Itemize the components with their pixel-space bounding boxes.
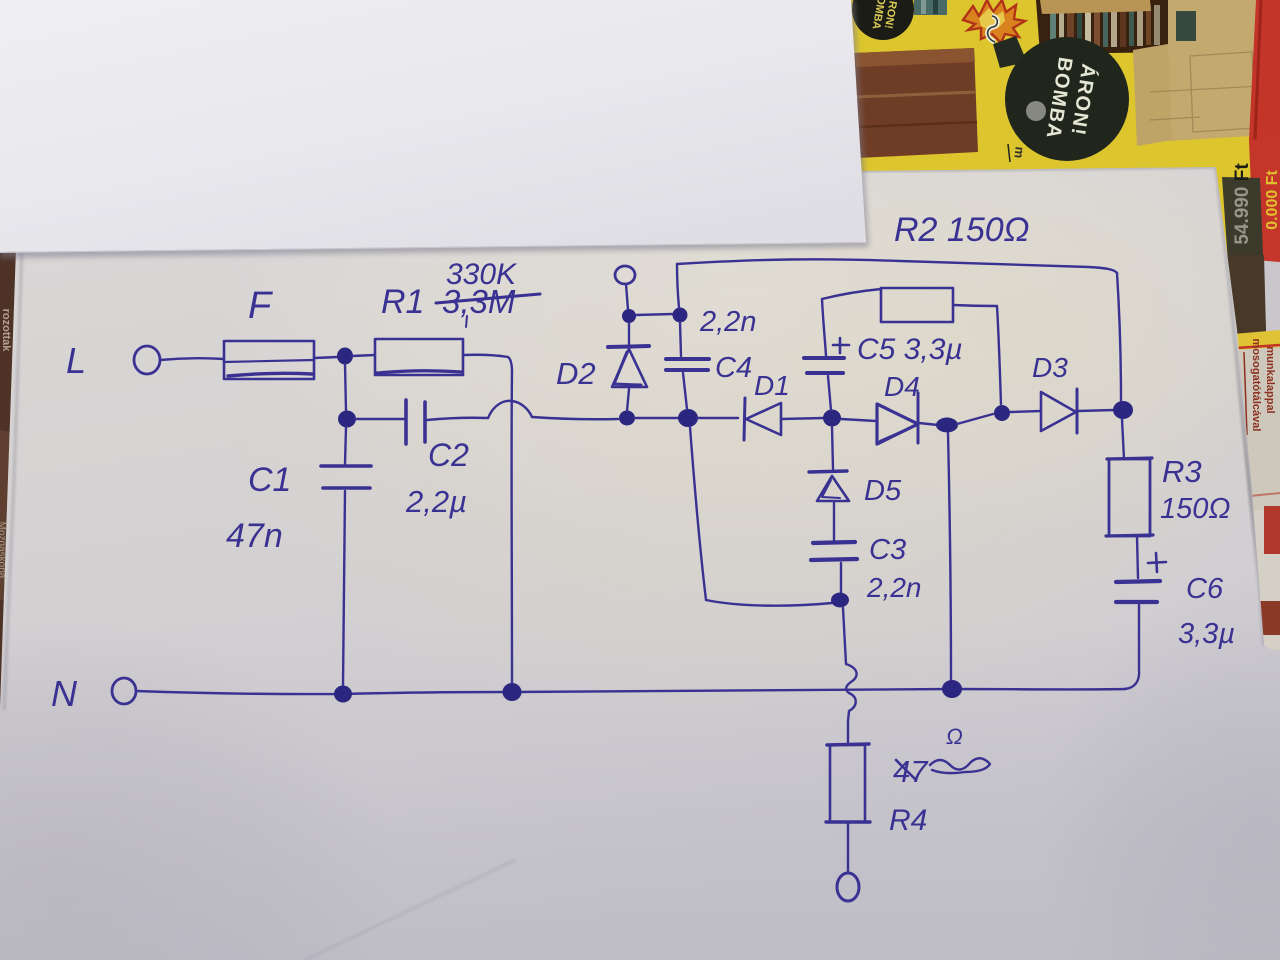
wire C6 down to N	[1125, 605, 1139, 689]
starburst explosion	[963, 0, 1025, 43]
svg-text:Ω: Ω	[946, 724, 963, 749]
diode D3 (points right)	[1041, 389, 1077, 433]
svg-text:rozottak: rozottak	[0, 309, 12, 353]
wire D2node to C4node	[635, 417, 679, 419]
svg-text:mosogatótálcával: mosogatótálcával	[1250, 339, 1262, 432]
bomb fuse curl	[988, 16, 998, 42]
svg-text:D3: D3	[1032, 352, 1068, 383]
wire vertical R1-output down to N	[510, 372, 513, 686]
svg-text:N: N	[51, 673, 78, 714]
wire fuse to node1	[314, 357, 338, 358]
node junction 1	[337, 348, 353, 365]
wire R4 down to terminal	[847, 822, 849, 873]
capacitor C6	[1116, 581, 1160, 602]
capacitor C2	[406, 400, 425, 444]
wire node2 down to C1	[345, 427, 346, 464]
wire C5 down to node3	[828, 376, 831, 410]
wire oval node down to N	[948, 433, 951, 680]
wire D2top node to C4 node	[636, 314, 673, 315]
fuse F1	[224, 341, 314, 379]
svg-text:3,3µ: 3,3µ	[1178, 618, 1235, 650]
svg-text:150Ω: 150Ω	[1160, 493, 1230, 525]
svg-text:R1: R1	[381, 283, 424, 321]
terminal L	[134, 346, 160, 374]
node N-C2branch	[503, 683, 522, 701]
svg-text:D4: D4	[884, 371, 920, 402]
capacitor C5 plus sign	[833, 338, 849, 353]
wire node1 to R1	[352, 355, 375, 356]
wire C4 down to main node	[683, 373, 687, 409]
svg-text:F: F	[248, 285, 273, 327]
node rail/R3 junction	[1113, 401, 1133, 419]
wire C4 main node down to loop corner	[690, 427, 706, 600]
capacitor C4	[666, 359, 709, 370]
wire D5 to C3	[833, 503, 835, 540]
diode D4 (points right)	[877, 393, 918, 444]
svg-text:R3: R3	[1162, 454, 1202, 489]
wire D1 to node3	[781, 418, 824, 419]
small badge top-left (partial)	[852, 0, 914, 40]
capacitor C5	[804, 358, 844, 373]
svg-text:47n: 47n	[226, 517, 283, 555]
wire node5 down to R3	[1122, 419, 1124, 459]
svg-text:L: L	[66, 340, 86, 381]
capacitor C6 plus sign	[1148, 553, 1166, 572]
wire D2 to main	[627, 389, 629, 411]
wire R2 right	[953, 305, 996, 306]
svg-text:D5: D5	[864, 475, 902, 507]
wire node2 to C2	[355, 418, 404, 420]
tan furniture sketch top-right	[1146, 0, 1280, 142]
svg-text:C3: C3	[869, 534, 906, 566]
diode D1 (points left)	[744, 398, 781, 440]
wire top rail R2	[677, 259, 1117, 273]
node D2 bottom	[619, 411, 635, 426]
wire D3 to node5	[1078, 410, 1114, 411]
resistor R4	[826, 744, 870, 822]
label 3,3M crossed out	[436, 283, 540, 327]
node D2 top	[622, 309, 636, 323]
node C4 bottom	[678, 409, 698, 427]
svg-text:47: 47	[893, 754, 929, 789]
terminal N	[112, 678, 136, 704]
wire loop corner to C3 node	[706, 600, 832, 606]
wire R1 right then down	[463, 355, 512, 372]
capacitor C1	[321, 466, 371, 488]
terminal bottom output	[837, 873, 859, 901]
wire node3 down to D5	[832, 427, 833, 469]
svg-text:R4: R4	[889, 804, 927, 837]
svg-text:2,2n: 2,2n	[699, 306, 756, 338]
teal books small	[914, 0, 947, 15]
wire D4 to oval node	[919, 423, 938, 425]
svg-text:R2 150Ω: R2 150Ω	[894, 211, 1030, 249]
red band with yellow price	[1249, 136, 1280, 262]
diode D5 (points up, bar on top)	[809, 471, 849, 501]
svg-text:C2: C2	[428, 437, 469, 473]
svg-text:54.990 Ft: 54.990 Ft	[1232, 163, 1253, 245]
diode D2 (points up, bar on top)	[608, 346, 649, 387]
node N-D4branch	[942, 680, 962, 698]
svg-text:C5 3,3µ: C5 3,3µ	[857, 333, 963, 366]
node D4 out (oval)	[936, 418, 958, 433]
resistor R2	[881, 288, 953, 322]
svg-text:D2: D2	[556, 356, 596, 391]
bookshelf photo top	[1036, 0, 1174, 54]
wire R2 left wire	[822, 289, 881, 299]
wire hop to D2 node	[532, 417, 618, 419]
wire node1 down to node2	[345, 364, 346, 411]
bomb circle	[1005, 37, 1129, 161]
svg-text:0.000 Ft: 0.000 Ft	[1264, 170, 1280, 230]
newsprint with red vertical text	[1236, 347, 1280, 510]
wire R2 right down	[997, 306, 1001, 404]
wire terminal down	[626, 284, 628, 310]
wire C3 down to node6	[840, 563, 842, 593]
wire node3 to D4	[841, 419, 876, 421]
wire node4 to D3	[1010, 411, 1041, 412]
wire R3 to C6	[1137, 536, 1138, 578]
svg-text:C1: C1	[248, 461, 291, 499]
svg-text:2,2µ: 2,2µ	[405, 484, 467, 519]
resistor R1	[375, 339, 463, 375]
brown box	[854, 48, 978, 158]
yellow strip under olive	[1233, 330, 1280, 350]
wire C1 down to N	[343, 491, 345, 685]
wire C4node to D1	[697, 417, 738, 419]
capacitor C3	[811, 542, 857, 560]
svg-text:C4: C4	[715, 352, 752, 384]
wire node6 down with hop over N	[843, 608, 857, 721]
wire C4top node down to C4	[680, 322, 681, 356]
dark olive band	[1222, 177, 1266, 334]
wire rail down right side	[1117, 273, 1121, 401]
terminal top output	[615, 266, 635, 284]
node R2 right junction	[994, 405, 1010, 421]
svg-text:2,2n: 2,2n	[866, 572, 922, 603]
label 47 ohm scribble	[893, 754, 990, 789]
wire N line	[136, 689, 1125, 694]
svg-text:D1: D1	[754, 370, 790, 401]
wire C4node up to rail	[677, 264, 679, 308]
wire hop over vertical	[488, 401, 532, 418]
svg-text:m: m	[1011, 146, 1027, 159]
svg-text:munkalappal: munkalappal	[1264, 346, 1276, 413]
bomb cap	[993, 36, 1027, 68]
wire C5 top: R2 left corner down	[822, 299, 826, 356]
wire L to fuse	[160, 358, 224, 360]
lighter newsprint	[1247, 510, 1280, 650]
wire C2 to hop	[427, 418, 488, 420]
svg-text:C6: C6	[1186, 573, 1224, 605]
resistor R3	[1106, 458, 1153, 536]
node C3 bottom	[831, 593, 849, 608]
wire hop to R4	[847, 721, 849, 745]
node C4 top	[673, 308, 688, 323]
node junction 2	[338, 411, 356, 428]
node N-C1	[334, 686, 352, 703]
left sliver	[0, 238, 18, 712]
node C5/D5 junction	[823, 410, 841, 427]
right red ribbon top	[1249, 0, 1280, 140]
wire D2 node down to D2	[628, 323, 630, 345]
wire oval to node4	[957, 414, 993, 424]
